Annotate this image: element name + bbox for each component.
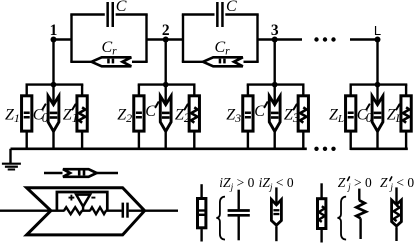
legend negative capacitor chevron symbol	[271, 187, 281, 241]
resistor R2	[90, 207, 106, 214]
svg-text:0: 0	[42, 110, 49, 125]
branch top drops	[248, 85, 303, 105]
branch top drops	[27, 85, 82, 105]
impedance Z2 box	[117, 96, 144, 131]
legend capacitor symbol	[228, 190, 250, 241]
impedance Z&#8242;L box	[387, 96, 412, 131]
minus input	[91, 197, 95, 199]
svg-text:C: C	[254, 103, 265, 120]
op-amp triangle	[69, 195, 96, 211]
wire node down to branch	[164, 40, 166, 85]
branch bottom drops	[248, 131, 303, 150]
impedance Z&#8242;2 box	[175, 96, 200, 131]
wire node down to branch	[52, 40, 54, 85]
legend brace Zprime	[338, 197, 347, 240]
legend brace iZ	[216, 197, 225, 240]
wire out of small arrow	[97, 172, 118, 174]
coupling loop wires	[70, 15, 147, 62]
negative coupling capacitor Cr arrow	[92, 39, 132, 66]
ellipsis top	[314, 37, 335, 41]
svg-text:3: 3	[271, 22, 279, 39]
branch top drops	[351, 85, 406, 105]
impedance Z1 box	[5, 96, 32, 131]
inner wire segments	[51, 209, 178, 211]
legend negative resistor chevron symbol	[392, 187, 402, 241]
ellipsis bus	[314, 147, 335, 151]
coupling loop wires	[182, 15, 259, 62]
node 2	[162, 22, 170, 43]
branch junction node	[51, 82, 57, 88]
resistor R1	[64, 207, 82, 214]
wire into big arrow	[0, 209, 51, 211]
branch top bar	[138, 83, 196, 85]
negative capacitor chevron	[33, 96, 59, 131]
wire loop2-node3	[258, 38, 303, 40]
branch top bar	[247, 83, 305, 85]
svg-text:C: C	[145, 103, 156, 120]
wire loop1-node2-loop2	[147, 38, 184, 40]
node L	[374, 23, 381, 43]
svg-text:2: 2	[184, 110, 191, 125]
negative coupling capacitor Cr arrow	[203, 39, 243, 66]
ground bus left segment	[11, 147, 307, 150]
negative capacitor chevron	[254, 96, 280, 131]
node 3	[271, 22, 279, 43]
branch junction node	[375, 82, 381, 88]
wire to node L	[350, 38, 378, 40]
impedance Z3 box	[226, 96, 253, 131]
svg-text:L: L	[374, 23, 381, 38]
branch bottom drops	[139, 131, 194, 150]
node 1	[50, 22, 58, 43]
svg-text:C: C	[116, 0, 127, 15]
svg-text:1: 1	[72, 110, 79, 125]
wire node down to branch	[274, 40, 276, 85]
svg-text:C: C	[226, 0, 237, 15]
svg-text:2: 2	[162, 22, 170, 39]
negative capacitor chevron	[145, 96, 171, 131]
ground symbol	[2, 149, 21, 170]
capacitor inside big arrow	[123, 203, 128, 218]
impedance Z&#8242;1 box	[63, 96, 88, 131]
svg-text:1: 1	[50, 22, 58, 39]
plus input	[69, 197, 75, 199]
branch top bar	[26, 83, 84, 85]
legend impedance box symbol (resistive)	[318, 183, 326, 242]
wire into small arrow	[44, 172, 63, 174]
svg-text:3: 3	[292, 110, 300, 125]
svg-text:L: L	[395, 113, 402, 125]
negative capacitor chevron	[357, 96, 383, 131]
capacitor C	[108, 0, 127, 27]
legend resistor symbol	[356, 189, 366, 239]
branch junction node	[163, 82, 169, 88]
wire node1 to loop1	[54, 38, 72, 40]
small negative capacitor arrow	[63, 169, 97, 177]
legend impedance box symbol	[198, 184, 206, 241]
op-amp feedback box	[57, 192, 107, 211]
wire node down to branch	[376, 40, 378, 85]
impedance Z&#8242;3 box	[284, 96, 309, 131]
ground bus right segment	[350, 147, 408, 150]
branch bottom drops	[351, 131, 406, 150]
svg-text:0: 0	[366, 110, 373, 125]
capacitor C	[217, 0, 237, 27]
branch junction node	[272, 82, 278, 88]
big arrow outline	[27, 188, 145, 235]
branch top bar	[350, 83, 408, 85]
branch top drops	[139, 85, 194, 105]
branch bottom drops	[27, 131, 82, 150]
impedance ZL box	[329, 96, 356, 131]
